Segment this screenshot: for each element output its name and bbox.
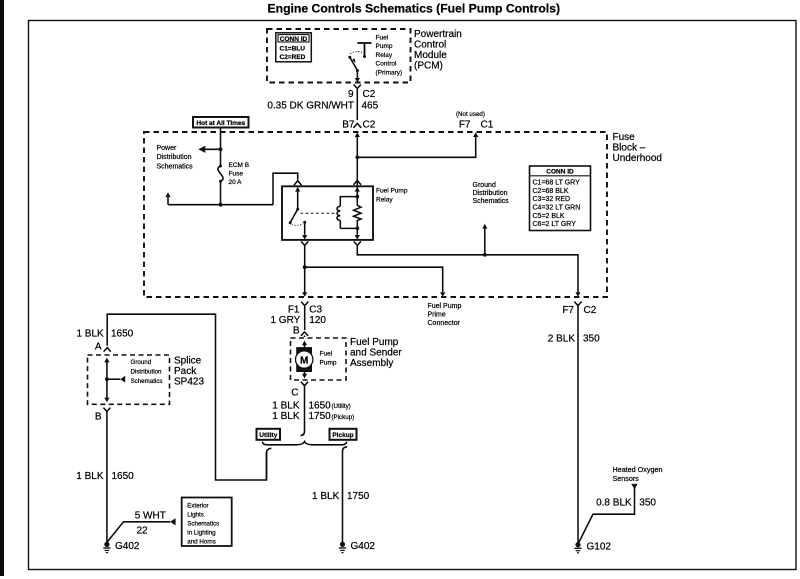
svg-text:22: 22 bbox=[137, 526, 149, 537]
svg-text:C: C bbox=[291, 388, 298, 399]
svg-text:Block –: Block – bbox=[613, 142, 646, 153]
svg-text:Splice: Splice bbox=[174, 355, 202, 366]
relay shunt resistor R1 (right branch) bbox=[354, 197, 361, 231]
svg-text:1 BLK: 1 BLK bbox=[76, 328, 104, 339]
svg-text:120: 120 bbox=[309, 315, 326, 326]
svg-text:C6=2 LT GRY: C6=2 LT GRY bbox=[533, 221, 577, 228]
svg-text:Schematics: Schematics bbox=[473, 198, 510, 205]
svg-text:(Pickup): (Pickup) bbox=[332, 414, 355, 421]
junction node at B7 wire bbox=[355, 155, 359, 159]
svg-text:9: 9 bbox=[348, 89, 354, 100]
label Fuel Pump (inside assembly) bbox=[320, 351, 337, 367]
ground G402 (left) bbox=[103, 541, 140, 552]
connector C bbox=[291, 382, 308, 399]
label Splice Pack SP423 bbox=[174, 355, 204, 387]
wire label 0.35 DK GRN/WHT 465 bbox=[267, 101, 378, 112]
svg-text:C3=32 RED: C3=32 RED bbox=[533, 196, 571, 203]
wire utility ground return route to splice pack bbox=[107, 314, 266, 480]
arrow up stub to power distribution bbox=[165, 192, 170, 204]
svg-text:Fuse: Fuse bbox=[229, 171, 244, 178]
svg-text:Utility: Utility bbox=[259, 432, 277, 439]
svg-text:Pickup: Pickup bbox=[332, 432, 353, 439]
svg-text:1 BLK: 1 BLK bbox=[272, 401, 300, 412]
scan edge bar bbox=[0, 0, 4, 576]
svg-text:C2=RED: C2=RED bbox=[280, 54, 306, 61]
relay internal switch contacts bbox=[289, 208, 307, 226]
svg-text:C2=68 BLK: C2=68 BLK bbox=[533, 188, 569, 195]
fuse block CONN ID legend box bbox=[530, 166, 591, 231]
label Ground Distribution Schematics (splice) bbox=[131, 359, 163, 385]
wire heated oxygen sensors ground branch bbox=[579, 484, 638, 543]
label Fuel Pump Relay Control (Primary) bbox=[376, 35, 403, 77]
svg-text:1 BLK: 1 BLK bbox=[312, 491, 340, 502]
svg-text:2 BLK: 2 BLK bbox=[548, 333, 576, 344]
junction node ground distribution bbox=[483, 253, 487, 257]
svg-text:Schematics: Schematics bbox=[131, 378, 163, 385]
svg-text:G402: G402 bbox=[351, 541, 376, 552]
svg-text:B: B bbox=[293, 326, 300, 337]
svg-text:1650: 1650 bbox=[309, 401, 332, 412]
svg-text:1750: 1750 bbox=[309, 411, 332, 422]
svg-text:1750: 1750 bbox=[347, 491, 370, 502]
fuse block underhood dashed enclosure bbox=[144, 132, 607, 297]
connector fork F7 / C2 bbox=[562, 302, 596, 543]
svg-text:Connector: Connector bbox=[428, 320, 461, 327]
reference box Exterior Lights Schematics in Lighting and Horns bbox=[182, 498, 232, 547]
PCM CONN ID legend box bbox=[276, 33, 312, 62]
op PCM module box U1 (Powertrain Control Module) bbox=[267, 29, 411, 83]
svg-text:and Horns: and Horns bbox=[187, 538, 216, 545]
svg-text:Distribution: Distribution bbox=[473, 190, 508, 197]
connector fork below relay pin 85 bbox=[354, 241, 581, 296]
svg-text:Prime: Prime bbox=[428, 312, 446, 319]
svg-text:M: M bbox=[300, 355, 308, 366]
svg-text:C5=2 BLK: C5=2 BLK bbox=[533, 213, 565, 220]
svg-text:350: 350 bbox=[639, 498, 656, 509]
splice pack internal bus with arrows bbox=[104, 358, 125, 403]
svg-text:C1=68 LT GRY: C1=68 LT GRY bbox=[533, 180, 581, 187]
svg-text:(PCM): (PCM) bbox=[414, 61, 443, 72]
wire label 1 BLK 1650 (lower) bbox=[76, 471, 134, 482]
svg-text:F7: F7 bbox=[562, 305, 574, 316]
label Heated Oxygen Sensors bbox=[613, 465, 663, 483]
svg-text:(Primary): (Primary) bbox=[376, 70, 403, 77]
fuse F1 ECM B 20 A bbox=[218, 165, 223, 183]
svg-text:Underhood: Underhood bbox=[613, 153, 662, 164]
svg-text:A: A bbox=[95, 341, 102, 352]
svg-text:F7: F7 bbox=[459, 119, 471, 130]
relay K1 Fuel Pump Relay box bbox=[282, 186, 373, 240]
svg-text:Relay: Relay bbox=[376, 52, 393, 59]
svg-text:20 A: 20 A bbox=[229, 179, 243, 186]
svg-text:C1: C1 bbox=[481, 119, 494, 130]
junction node splice bbox=[105, 377, 109, 381]
label box Pickup bbox=[330, 429, 357, 440]
svg-text:5 WHT: 5 WHT bbox=[135, 511, 166, 522]
svg-text:CONN ID: CONN ID bbox=[280, 36, 308, 43]
svg-text:Relay: Relay bbox=[376, 196, 393, 203]
svg-text:Ground: Ground bbox=[473, 182, 496, 189]
label (Not used) bbox=[456, 111, 485, 118]
wire fuse to relay switch terminal bbox=[273, 173, 302, 205]
connector A bbox=[95, 341, 111, 352]
svg-text:G102: G102 bbox=[587, 542, 612, 553]
svg-text:C2: C2 bbox=[363, 119, 376, 130]
pin label F7 C1 bbox=[459, 119, 494, 130]
connector fork F1 / C3 bbox=[288, 302, 323, 330]
svg-text:0.8 BLK: 0.8 BLK bbox=[596, 498, 632, 509]
svg-text:Powertrain: Powertrain bbox=[414, 29, 462, 40]
svg-text:C4=32 LT GRN: C4=32 LT GRN bbox=[533, 204, 581, 211]
svg-text:(Not used): (Not used) bbox=[456, 111, 485, 118]
svg-text:Schematics: Schematics bbox=[187, 520, 219, 527]
svg-text:Heated Oxygen: Heated Oxygen bbox=[613, 465, 663, 474]
relay coil terminal arrow (86 side) bbox=[354, 180, 362, 198]
wire pickup branch with open hook bbox=[343, 447, 348, 543]
svg-text:C3: C3 bbox=[309, 304, 322, 315]
svg-text:SP423: SP423 bbox=[174, 377, 204, 388]
svg-text:(Utility): (Utility) bbox=[332, 403, 351, 410]
label Fuel Pump and Sender Assembly bbox=[350, 337, 402, 369]
wire label 1 BLK 1750 (pickup drop) bbox=[312, 491, 370, 502]
relay coil return to bottom edge bbox=[355, 228, 360, 239]
arrow up to ground distribution schematics bbox=[482, 224, 487, 255]
svg-text:Power: Power bbox=[157, 145, 178, 152]
wire fuse output bbox=[168, 181, 273, 206]
pin label 9 C2 bbox=[348, 89, 376, 100]
svg-text:Fuel: Fuel bbox=[320, 351, 333, 358]
svg-text:0.35 DK GRN/WHT: 0.35 DK GRN/WHT bbox=[267, 101, 354, 112]
wire F7 C1 not-used branch with arrow up at boundary bbox=[355, 132, 478, 159]
relay switch terminal arrow (pin 30 side) bbox=[295, 187, 300, 209]
wire label 1 BLK 1650 (upper) bbox=[76, 328, 133, 339]
svg-text:465: 465 bbox=[362, 101, 379, 112]
svg-text:Module: Module bbox=[414, 50, 447, 61]
svg-text:B: B bbox=[95, 411, 102, 422]
wire label 2 BLK 350 bbox=[548, 333, 600, 344]
arrow to power distribution schematics bbox=[198, 146, 220, 153]
svg-text:Schematics: Schematics bbox=[157, 163, 194, 170]
svg-text:Fuel: Fuel bbox=[376, 35, 389, 42]
svg-text:Ground: Ground bbox=[131, 359, 152, 366]
svg-text:350: 350 bbox=[583, 333, 600, 344]
svg-text:Sensors: Sensors bbox=[613, 474, 640, 483]
svg-text:Fuel Pump: Fuel Pump bbox=[350, 337, 399, 348]
wire label 1 GRY 120 bbox=[270, 315, 326, 326]
label ECM B Fuse 20 A bbox=[229, 162, 250, 186]
svg-text:1 BLK: 1 BLK bbox=[272, 411, 300, 422]
label Fuel Pump Relay bbox=[376, 187, 408, 203]
label Fuse Block - Underhood bbox=[613, 132, 662, 164]
wire label 5 WHT 22 bbox=[135, 511, 166, 537]
svg-text:C2: C2 bbox=[584, 305, 597, 316]
svg-text:Lights: Lights bbox=[187, 511, 204, 518]
wire 5 WHT 22 to exterior lights bbox=[107, 518, 175, 542]
svg-text:in Lighting: in Lighting bbox=[187, 529, 216, 536]
svg-text:Control: Control bbox=[376, 61, 398, 68]
wire label 1 BLK 1650 (Utility) bbox=[272, 401, 351, 412]
svg-text:CONN ID: CONN ID bbox=[546, 169, 574, 176]
label box Utility bbox=[257, 429, 281, 440]
connector fork 9 / C2 bbox=[354, 85, 361, 121]
svg-text:Pump: Pump bbox=[320, 360, 337, 367]
svg-text:1 GRY: 1 GRY bbox=[270, 315, 300, 326]
svg-text:C1=BLU: C1=BLU bbox=[280, 46, 306, 53]
wire splice pack to G402 bbox=[106, 411, 108, 542]
svg-text:C2: C2 bbox=[363, 89, 376, 100]
wire label 1 BLK 1750 (Pickup) bbox=[272, 411, 354, 422]
label Ground Distribution Schematics (fuse block) bbox=[473, 182, 510, 205]
connector fork B7 / C2 bbox=[342, 119, 375, 130]
svg-text:Pump: Pump bbox=[376, 43, 393, 50]
label Powertrain Control Module (PCM) bbox=[414, 29, 462, 72]
splice pack SP423 dashed box bbox=[88, 355, 170, 404]
ground G102 bbox=[574, 542, 611, 553]
connector B bbox=[95, 408, 111, 423]
svg-text:1650: 1650 bbox=[111, 328, 134, 339]
relay coil L1 (left branch) bbox=[337, 197, 357, 229]
svg-text:Control: Control bbox=[414, 40, 446, 51]
svg-text:1650: 1650 bbox=[112, 471, 135, 482]
ground G402 (pickup) bbox=[339, 541, 376, 552]
motor M1 fuel pump bbox=[296, 341, 313, 379]
relay switched output to bottom edge bbox=[302, 222, 307, 239]
svg-text:Pack: Pack bbox=[174, 366, 197, 377]
wire utility branch with open hook bbox=[267, 448, 272, 480]
svg-text:Distribution: Distribution bbox=[131, 369, 163, 376]
svg-text:B7: B7 bbox=[342, 119, 355, 130]
connector fork below relay pin 87 bbox=[301, 241, 308, 296]
alternative-wiring brace bbox=[262, 442, 346, 445]
svg-text:Fuse: Fuse bbox=[613, 132, 636, 143]
wire hot feed down into fuse block bbox=[219, 128, 223, 166]
relay actuation dashed link bbox=[301, 212, 337, 214]
svg-text:1 BLK: 1 BLK bbox=[76, 471, 104, 482]
wire label 0.8 BLK 350 bbox=[596, 498, 656, 509]
wire fuel pump prime connector branch bbox=[305, 267, 446, 297]
junction node to prime connector bbox=[303, 265, 307, 269]
label Power Distribution Schematics bbox=[157, 145, 194, 170]
wire into fuse block, arrow up at boundary bbox=[355, 132, 360, 196]
switch S1 fuel pump relay driver inside PCM bbox=[348, 43, 371, 72]
svg-text:and Sender: and Sender bbox=[350, 348, 402, 359]
svg-text:Exterior: Exterior bbox=[187, 502, 208, 509]
svg-text:G402: G402 bbox=[115, 541, 140, 552]
junction node power feed bbox=[219, 147, 223, 151]
svg-text:ECM B: ECM B bbox=[229, 162, 250, 169]
wire PCM pin 9 output, arrow into PCM bottom edge bbox=[355, 71, 360, 83]
svg-text:Engine Controls Schematics (Fu: Engine Controls Schematics (Fuel Pump Co… bbox=[268, 1, 561, 15]
svg-text:Fuel Pump: Fuel Pump bbox=[376, 187, 408, 194]
svg-text:Hot at All Times: Hot at All Times bbox=[196, 120, 245, 127]
label box Hot at All Times bbox=[193, 117, 249, 128]
svg-text:F1: F1 bbox=[288, 304, 300, 315]
svg-text:Distribution: Distribution bbox=[157, 154, 192, 161]
wire fuel pump ground lead bbox=[301, 385, 305, 435]
label Fuel Pump Prime Connector bbox=[428, 303, 462, 327]
svg-text:Assembly: Assembly bbox=[350, 358, 393, 369]
connector B (fuel pump) bbox=[293, 326, 308, 337]
fuel pump and sender assembly dashed box bbox=[291, 338, 347, 380]
svg-text:Fuel Pump: Fuel Pump bbox=[428, 303, 462, 310]
